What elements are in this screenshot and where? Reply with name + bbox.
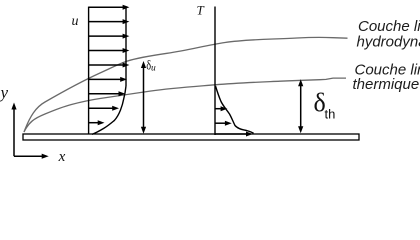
x axis xyxy=(14,154,49,159)
svg-text:x: x xyxy=(58,149,66,165)
u arrow 9 xyxy=(89,122,99,124)
thermal boundary-layer curve xyxy=(24,78,346,132)
u arrow 2 xyxy=(89,21,124,23)
svg-text:y: y xyxy=(0,83,9,102)
temperature arrow 3 (wall) xyxy=(215,133,247,135)
u arrow 1 xyxy=(89,5,130,126)
delta_u measurement arrow xyxy=(141,61,146,134)
temperature arrow 2 xyxy=(215,122,226,124)
svg-text:u: u xyxy=(151,63,156,73)
u arrow 4 xyxy=(89,50,124,52)
svg-text:th: th xyxy=(325,107,336,122)
svg-text:Couche limite: Couche limite xyxy=(358,18,420,35)
wall plate xyxy=(23,134,359,140)
u arrow 7 xyxy=(89,93,120,95)
svg-text:thermique: thermique xyxy=(353,76,420,93)
temperature profile curve xyxy=(216,86,254,133)
u arrow 8 xyxy=(89,107,114,109)
u-profile left vertical line xyxy=(88,7,90,135)
u-profile envelope curve xyxy=(92,86,126,134)
y axis xyxy=(11,103,16,157)
svg-text:T: T xyxy=(197,3,205,18)
u arrow 3 xyxy=(89,35,124,37)
temperature arrow 1 xyxy=(215,106,253,136)
delta_th measurement arrow xyxy=(298,79,303,133)
u-profile right vertical line xyxy=(125,7,127,86)
u arrow 6 xyxy=(89,78,122,80)
T axis vertical line xyxy=(214,7,216,136)
hydrodynamic boundary-layer curve xyxy=(24,37,348,132)
u arrow 5 xyxy=(89,64,124,66)
svg-text:u: u xyxy=(72,14,79,29)
svg-text:hydrodynamique: hydrodynamique xyxy=(357,34,420,51)
